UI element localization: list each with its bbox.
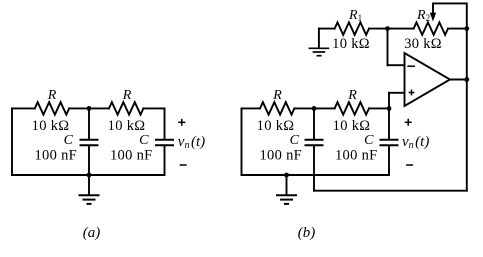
svg-text:R: R — [47, 88, 57, 103]
svg-text:10 kΩ: 10 kΩ — [333, 118, 371, 134]
svg-text:100 nF: 100 nF — [260, 148, 303, 164]
svg-text:R: R — [347, 88, 357, 103]
svg-text:100 nF: 100 nF — [110, 148, 153, 164]
svg-text:C: C — [290, 133, 300, 148]
svg-text:C: C — [364, 133, 374, 148]
svg-text:100 nF: 100 nF — [35, 148, 78, 164]
svg-text:10 kΩ: 10 kΩ — [32, 118, 70, 134]
svg-text:10 kΩ: 10 kΩ — [332, 36, 370, 52]
svg-text:vn(t): vn(t) — [178, 134, 205, 151]
svg-text:10 kΩ: 10 kΩ — [108, 118, 146, 134]
svg-text:C: C — [64, 133, 74, 148]
svg-text:30 kΩ: 30 kΩ — [404, 36, 442, 52]
svg-text:100 nF: 100 nF — [335, 148, 378, 164]
svg-text:C: C — [139, 133, 149, 148]
svg-text:10 kΩ: 10 kΩ — [257, 118, 295, 134]
svg-text:(a): (a) — [83, 225, 101, 241]
svg-text:R: R — [122, 88, 132, 103]
svg-text:vn(t): vn(t) — [402, 134, 429, 151]
svg-text:(b): (b) — [298, 225, 316, 241]
svg-text:R: R — [272, 88, 282, 103]
